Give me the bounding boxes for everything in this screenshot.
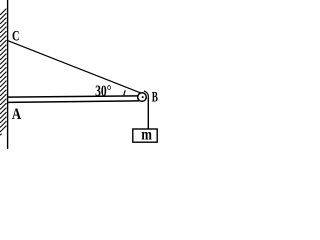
mass box — [133, 129, 157, 142]
wall hatching — [0, 9, 6, 136]
beam AB top edge — [8, 96, 139, 97]
wall vertical line — [7, 0, 9, 149]
wire: cable wrapping over pulley — [144, 91, 149, 97]
pulley circle at B — [138, 93, 147, 102]
svg-text:m: m — [141, 127, 152, 144]
angle arc at B — [124, 90, 125, 95]
wire: cable from C to pulley B — [8, 41, 142, 94]
wire: hanging cable to mass — [147, 97, 149, 129]
pulley hub dot — [142, 96, 144, 98]
beam AB bottom edge — [8, 101, 139, 103]
svg-text:B: B — [152, 89, 158, 105]
beam AB right end cap — [137, 95, 139, 101]
svg-text:A: A — [12, 106, 22, 123]
svg-text:C: C — [12, 28, 20, 44]
svg-text:30°: 30° — [95, 83, 111, 100]
